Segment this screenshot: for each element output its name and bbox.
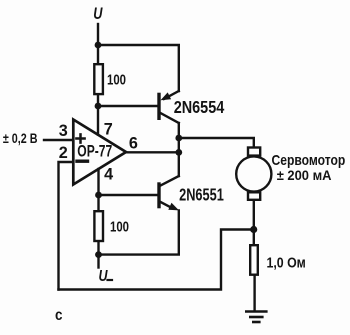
minus input marking <box>77 159 88 162</box>
wire U+ stub <box>97 24 99 45</box>
node J6 U- rail <box>95 251 102 258</box>
svg-text:2N6551: 2N6551 <box>179 185 224 205</box>
wire collector bus <box>178 123 180 176</box>
wire R2 top lead <box>97 195 99 210</box>
plus input marking <box>76 134 84 142</box>
op-amp U1 OP-77 <box>73 120 126 185</box>
wire pin 3 input <box>44 139 73 141</box>
transistor Q2 2N6551 <box>159 176 179 210</box>
svg-text:U: U <box>99 268 109 285</box>
node J2 R1 bottom / pin 7 / Q1 base <box>95 103 102 110</box>
svg-text:± 0,2 В: ± 0,2 В <box>3 130 38 146</box>
node J4 op-amp output <box>175 149 182 156</box>
svg-text:4: 4 <box>104 165 113 183</box>
wire output pin 6 <box>126 151 179 153</box>
wire U- stub <box>97 255 99 268</box>
wire R3 bottom lead <box>253 276 255 311</box>
transistor Q1 2N6554 <box>159 91 179 123</box>
wire R1 bottom lead <box>97 95 99 107</box>
wire pin 7 <box>97 106 99 135</box>
wire pin 4 <box>97 169 99 195</box>
wire motor bottom <box>253 201 255 229</box>
svg-text:3: 3 <box>59 122 68 140</box>
svg-text:100: 100 <box>107 73 126 89</box>
node J5 pin4 / R2 / Q2 base <box>95 192 102 199</box>
svg-text:c: c <box>55 307 63 324</box>
svg-text:± 200 мА: ± 200 мА <box>277 167 332 183</box>
svg-text:2N6554: 2N6554 <box>174 97 225 117</box>
resistor R3 <box>250 245 258 275</box>
svg-text:100: 100 <box>110 220 129 236</box>
svg-text:U: U <box>93 5 103 23</box>
resistor R2 <box>94 211 103 241</box>
node J1 U+ rail <box>95 42 102 49</box>
node J7 motor / R3 / feedback <box>250 226 257 233</box>
wire Q1 base rail <box>98 105 158 107</box>
wire pin 2 stub <box>59 162 74 290</box>
svg-text:6: 6 <box>129 135 138 153</box>
ground <box>246 312 266 323</box>
svg-text:7: 7 <box>104 121 113 139</box>
svg-text:2: 2 <box>59 144 68 162</box>
wire R3 top lead <box>253 230 255 245</box>
resistor R1 <box>94 64 103 94</box>
wire feedback bottom run <box>59 230 254 290</box>
wire U+ rail to Q1 emitter <box>98 45 179 91</box>
svg-text:1,0 Ом: 1,0 Ом <box>267 255 306 271</box>
wire Q2 emitter to U- rail <box>99 211 179 255</box>
motor M1 servomotor <box>236 148 271 200</box>
wire R1 top lead <box>97 45 99 63</box>
node J3 motor branch <box>175 135 182 142</box>
wire Q2 base rail <box>99 194 158 196</box>
wire motor branch <box>179 138 254 146</box>
wire R2 bottom lead <box>97 242 99 255</box>
svg-text:OP-77: OP-77 <box>77 142 112 160</box>
